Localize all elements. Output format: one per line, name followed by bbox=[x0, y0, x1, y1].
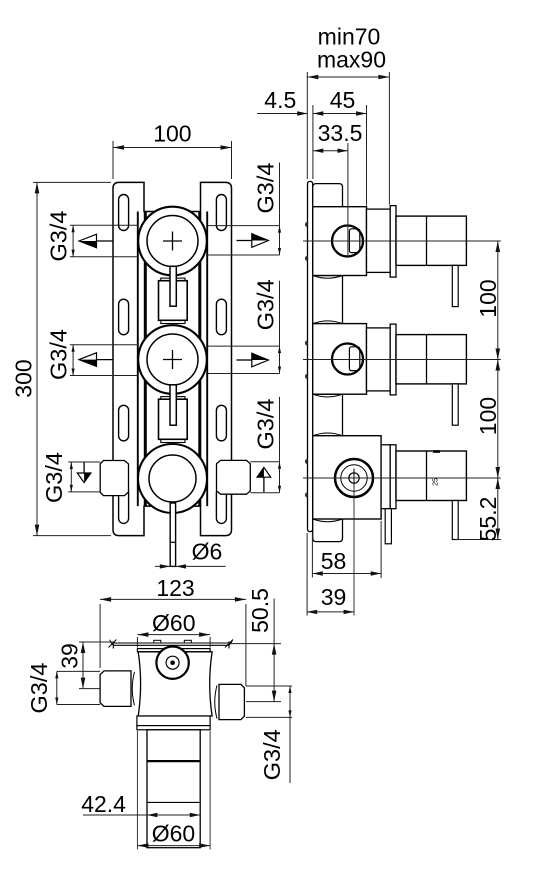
svg-text:45: 45 bbox=[330, 87, 356, 113]
svg-text:123: 123 bbox=[156, 575, 194, 601]
svg-text:max90: max90 bbox=[317, 46, 386, 72]
svg-text:Ø60: Ø60 bbox=[152, 610, 195, 636]
svg-text:39: 39 bbox=[321, 584, 347, 610]
svg-text:100: 100 bbox=[475, 397, 501, 435]
svg-text:G3/4: G3/4 bbox=[252, 163, 278, 214]
svg-text:100: 100 bbox=[475, 279, 501, 317]
svg-text:G3/4: G3/4 bbox=[252, 279, 278, 330]
svg-text:G3/4: G3/4 bbox=[259, 729, 285, 780]
svg-text:G3/4: G3/4 bbox=[252, 399, 278, 450]
svg-text:Ø60: Ø60 bbox=[152, 821, 195, 847]
svg-text:50.5: 50.5 bbox=[247, 588, 273, 633]
svg-text:55.2: 55.2 bbox=[475, 497, 501, 542]
svg-text:25: 25 bbox=[433, 478, 440, 486]
svg-text:G3/4: G3/4 bbox=[46, 329, 72, 380]
svg-text:58: 58 bbox=[321, 548, 347, 574]
svg-text:G3/4: G3/4 bbox=[46, 211, 72, 262]
svg-text:G3/4: G3/4 bbox=[41, 452, 67, 503]
svg-text:300: 300 bbox=[11, 359, 37, 397]
svg-text:42.4: 42.4 bbox=[81, 791, 126, 817]
svg-text:Ø6: Ø6 bbox=[192, 539, 223, 565]
svg-text:G3/4: G3/4 bbox=[26, 663, 52, 714]
svg-text:4.5: 4.5 bbox=[264, 87, 296, 113]
svg-text:39: 39 bbox=[57, 643, 83, 669]
svg-text:100: 100 bbox=[153, 121, 191, 147]
svg-text:33.5: 33.5 bbox=[318, 120, 363, 146]
